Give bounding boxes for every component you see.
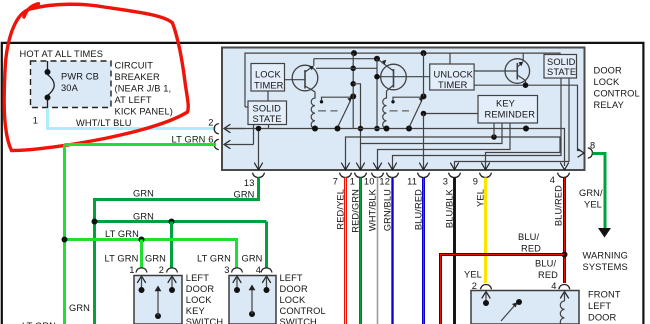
switch S2 blade <box>409 93 427 127</box>
svg-text:11: 11 <box>407 177 417 187</box>
front door pin 4 terminal <box>551 281 570 301</box>
wire solid state left feed <box>245 106 248 108</box>
switch S1 blade <box>338 93 357 127</box>
wire GRN/YEL from pin8 <box>593 154 606 229</box>
svg-text:STATE: STATE <box>253 114 282 124</box>
svg-text:CIRCUIT: CIRCUIT <box>115 60 154 70</box>
internal rail R5 y143.5 to pin1 <box>361 123 503 169</box>
svg-text:AT LEFT: AT LEFT <box>115 95 152 105</box>
relay box: DOOR LOCK CONTROL RELAY <box>222 48 585 171</box>
pin 13 terminal <box>233 163 264 200</box>
svg-text:RED/GRN: RED/GRN <box>351 189 361 233</box>
svg-text:BLU/BLK: BLU/BLK <box>445 188 455 228</box>
svg-text:KEY: KEY <box>496 99 515 109</box>
pin 9 terminal <box>473 163 492 187</box>
pin 7 terminal <box>333 163 352 187</box>
svg-text:GRN/BLU: GRN/BLU <box>383 189 393 231</box>
unlock timer U-UT box <box>430 64 474 90</box>
left door lock control switch box <box>229 276 276 324</box>
svg-text:RED/YEL: RED/YEL <box>336 189 346 230</box>
svg-text:1: 1 <box>350 177 355 187</box>
wire WHT/LT BLU from breaker to relay pin 2 <box>48 108 217 129</box>
svg-text:10: 10 <box>364 177 375 187</box>
svg-text:8: 8 <box>590 141 595 151</box>
svg-text:GRN: GRN <box>133 212 154 222</box>
svg-text:BREAKER: BREAKER <box>115 72 160 82</box>
wire WHT/BLK pin10 <box>376 178 379 324</box>
svg-text:LEFT: LEFT <box>588 301 611 311</box>
svg-text:LT GRN: LT GRN <box>197 254 231 264</box>
svg-text:4: 4 <box>256 265 261 275</box>
svg-text:7: 7 <box>333 177 338 187</box>
dashed linkage coil L1 to switch S1 <box>318 110 338 112</box>
front door pin 2 terminal <box>472 281 492 306</box>
svg-text:LEFT: LEFT <box>186 273 209 283</box>
pin 4 terminal <box>550 163 570 185</box>
pin 1 terminal <box>350 163 367 187</box>
internal rail R4 y137 to pin7/pin9 <box>346 123 561 169</box>
wire y85 rail to pin 8 <box>474 82 581 150</box>
control switch pin 3 terminal <box>224 265 242 293</box>
svg-text:1: 1 <box>129 265 134 275</box>
svg-text:YEL: YEL <box>476 189 486 207</box>
solid state U-SS2 box <box>544 55 577 79</box>
solid state U-SS1 box <box>248 101 287 125</box>
svg-text:BLU/: BLU/ <box>535 259 556 269</box>
key reminder U-KR box <box>478 96 538 124</box>
svg-text:2: 2 <box>159 265 164 275</box>
svg-text:KEY: KEY <box>186 306 205 316</box>
svg-text:DOOR: DOOR <box>588 313 617 323</box>
wire GRN horizontal branch <box>92 219 267 225</box>
wire solid state SS1 bottom stubs <box>254 125 269 145</box>
svg-text:13: 13 <box>244 178 255 188</box>
control switch wiper <box>249 285 256 318</box>
svg-text:HOT AT ALL TIMES: HOT AT ALL TIMES <box>20 49 104 59</box>
label DOOR LOCK CONTROL RELAY <box>594 66 640 111</box>
transistor Q3 <box>474 53 529 83</box>
svg-text:YEL: YEL <box>464 270 482 280</box>
svg-text:LOCK: LOCK <box>186 295 212 305</box>
node S1 contact riser <box>350 53 356 128</box>
svg-text:STATE: STATE <box>547 67 576 77</box>
wire YEL pin9 <box>484 178 487 284</box>
svg-text:REMINDER: REMINDER <box>485 110 536 120</box>
pin 6 relay left <box>214 139 253 149</box>
front door coil <box>560 301 564 324</box>
svg-text:DOOR: DOOR <box>594 66 623 76</box>
wire S2 pivot stub <box>408 128 410 129</box>
svg-text:RED: RED <box>538 270 558 280</box>
svg-text:BLU/: BLU/ <box>518 232 539 242</box>
svg-text:4: 4 <box>550 175 555 185</box>
svg-text:3: 3 <box>224 265 229 275</box>
pin 10 terminal <box>364 163 384 187</box>
svg-text:CONTROL: CONTROL <box>594 89 640 99</box>
pin 2 relay left <box>208 118 245 134</box>
svg-text:WHT/LT BLU: WHT/LT BLU <box>76 118 132 128</box>
wire unlock timer top riser <box>449 53 451 64</box>
wire GRN drop to key switch pin2 <box>170 222 173 269</box>
svg-text:DOOR: DOOR <box>280 284 309 294</box>
pin 8 relay right <box>578 141 595 159</box>
svg-text:SWITCH: SWITCH <box>186 317 223 324</box>
svg-text:UNLOCK: UNLOCK <box>434 70 474 80</box>
wire LT GRN drop to key switch pin1 <box>140 240 143 269</box>
key switch wiper <box>155 286 162 320</box>
svg-text:LOCK: LOCK <box>255 70 281 80</box>
wire pin11 drop <box>423 114 425 170</box>
svg-text:KICK PANEL): KICK PANEL) <box>115 106 174 116</box>
svg-text:GRN: GRN <box>69 303 90 313</box>
svg-text:1: 1 <box>33 116 38 126</box>
wire LT GRN horizontal branch <box>62 237 237 269</box>
value label PWR CB 30A <box>61 72 99 94</box>
svg-text:GRN: GRN <box>145 254 166 264</box>
svg-text:9: 9 <box>473 177 478 187</box>
svg-text:RELAY: RELAY <box>594 100 624 110</box>
svg-text:GRN/: GRN/ <box>579 188 603 198</box>
wire RED/YEL pin7 <box>344 178 347 324</box>
wire GRN drop to control switch pin4 <box>265 222 268 269</box>
svg-text:CONTROL: CONTROL <box>280 306 326 316</box>
arrow to warning systems <box>598 228 611 238</box>
svg-text:TIMER: TIMER <box>438 80 468 90</box>
internal rail R8 y161.5 to pin3 <box>455 78 570 169</box>
svg-text:GRN: GRN <box>242 254 263 264</box>
node Q2 riser <box>374 59 380 132</box>
wire LT GRN vertical from pin6 <box>65 145 217 324</box>
svg-text:SWITCH: SWITCH <box>280 317 317 324</box>
lock timer U-LT box <box>251 64 285 92</box>
pin 3 terminal <box>443 163 461 187</box>
key switch pin 1 terminal <box>129 265 147 293</box>
svg-text:GRN: GRN <box>133 189 154 199</box>
front door motor arrow <box>501 299 522 321</box>
label FRONT LEFT DOOR <box>588 290 621 323</box>
wire collector link y68 <box>316 67 377 69</box>
circuit breaker PWR CB 30A symbol <box>45 61 55 108</box>
circuit breaker CB dashed enclosure <box>31 61 112 108</box>
transistor Q2 <box>377 60 430 91</box>
front left door box <box>471 291 579 324</box>
pin 12 terminal <box>379 163 398 187</box>
svg-text:YEL: YEL <box>584 200 602 210</box>
svg-text:PWR CB: PWR CB <box>61 72 99 82</box>
relay coil L1 <box>311 92 315 129</box>
svg-text:(NEAR J/B 1,: (NEAR J/B 1, <box>115 83 172 93</box>
red annotation circle <box>4 4 188 151</box>
svg-text:BLU/RED: BLU/RED <box>414 189 424 230</box>
wire BLU/BLK pin3 <box>453 178 456 324</box>
relay coil L2 <box>383 91 387 129</box>
internal rail 2 <box>314 56 380 62</box>
svg-text:BLU/RED: BLU/RED <box>554 185 564 226</box>
svg-text:LOCK: LOCK <box>280 295 306 305</box>
wire BLU/RED pin4 with junction <box>562 178 568 284</box>
label GRN/YEL <box>579 188 603 210</box>
transistor Q1 <box>285 59 318 92</box>
svg-text:LT GRN: LT GRN <box>105 254 139 264</box>
control switch pin 4 terminal <box>256 265 272 293</box>
label CIRCUIT BREAKER (NEAR J/B 1, AT LEFT KICK PANEL) <box>115 60 174 116</box>
label WARNING SYSTEMS <box>583 251 628 273</box>
internal rail R7 y155.5 to pin12 <box>393 78 562 169</box>
svg-text:SOLID: SOLID <box>547 57 576 67</box>
svg-text:SYSTEMS: SYSTEMS <box>583 262 628 272</box>
wire BLU/RED branch left and down <box>441 255 565 324</box>
label LEFT DOOR LOCK KEY SWITCH <box>186 273 223 324</box>
svg-text:12: 12 <box>379 177 390 187</box>
wire GRN/BLU pin12 <box>391 178 394 324</box>
switch S2 NC tap <box>391 97 422 103</box>
svg-text:DOOR: DOOR <box>186 284 215 294</box>
internal rail R3 y128.5 <box>224 126 565 167</box>
svg-text:4: 4 <box>551 281 556 291</box>
svg-text:SOLID: SOLID <box>253 104 282 114</box>
svg-text:WHT/BLK: WHT/BLK <box>368 188 378 231</box>
svg-text:RED: RED <box>521 244 541 254</box>
wire pin13 drop <box>256 126 262 169</box>
node S2 contact riser <box>423 53 425 96</box>
internal rail R6 y149.5 to pin10 <box>378 123 511 169</box>
wire key reminder feed y113.5 <box>421 111 478 117</box>
label BLU/RED at junction <box>518 232 541 254</box>
svg-text:LEFT: LEFT <box>280 273 303 283</box>
internal top rail <box>245 50 560 107</box>
svg-text:TIMER: TIMER <box>254 81 284 91</box>
pin 11 terminal <box>407 163 429 187</box>
svg-text:LT GRN: LT GRN <box>105 229 139 239</box>
switch S1 NC tap <box>320 97 352 103</box>
svg-text:2: 2 <box>208 118 213 128</box>
svg-text:WARNING: WARNING <box>583 251 628 261</box>
svg-text:LOCK: LOCK <box>594 77 620 87</box>
wire Q3 emitter to y85 rail <box>525 81 527 86</box>
label LEFT DOOR LOCK CONTROL SWITCH <box>280 273 326 324</box>
label BLU/RED above pin4 connector <box>535 259 558 281</box>
wire GRN from pin13 <box>95 178 259 324</box>
wire BLU/RED pin11 <box>422 178 425 324</box>
key switch pin 2 terminal <box>159 265 178 293</box>
svg-text:2: 2 <box>472 281 477 291</box>
svg-text:30A: 30A <box>61 83 79 93</box>
dashed linkage coil L2 to switch S2 <box>390 110 410 112</box>
svg-text:FRONT: FRONT <box>588 290 621 300</box>
wire S1 to pin1 riser <box>353 84 363 144</box>
wire lock timer to solid state <box>267 91 269 101</box>
svg-text:3: 3 <box>443 177 448 187</box>
left door lock key switch box <box>134 276 182 324</box>
wire RED/GRN pin1 <box>359 178 362 324</box>
